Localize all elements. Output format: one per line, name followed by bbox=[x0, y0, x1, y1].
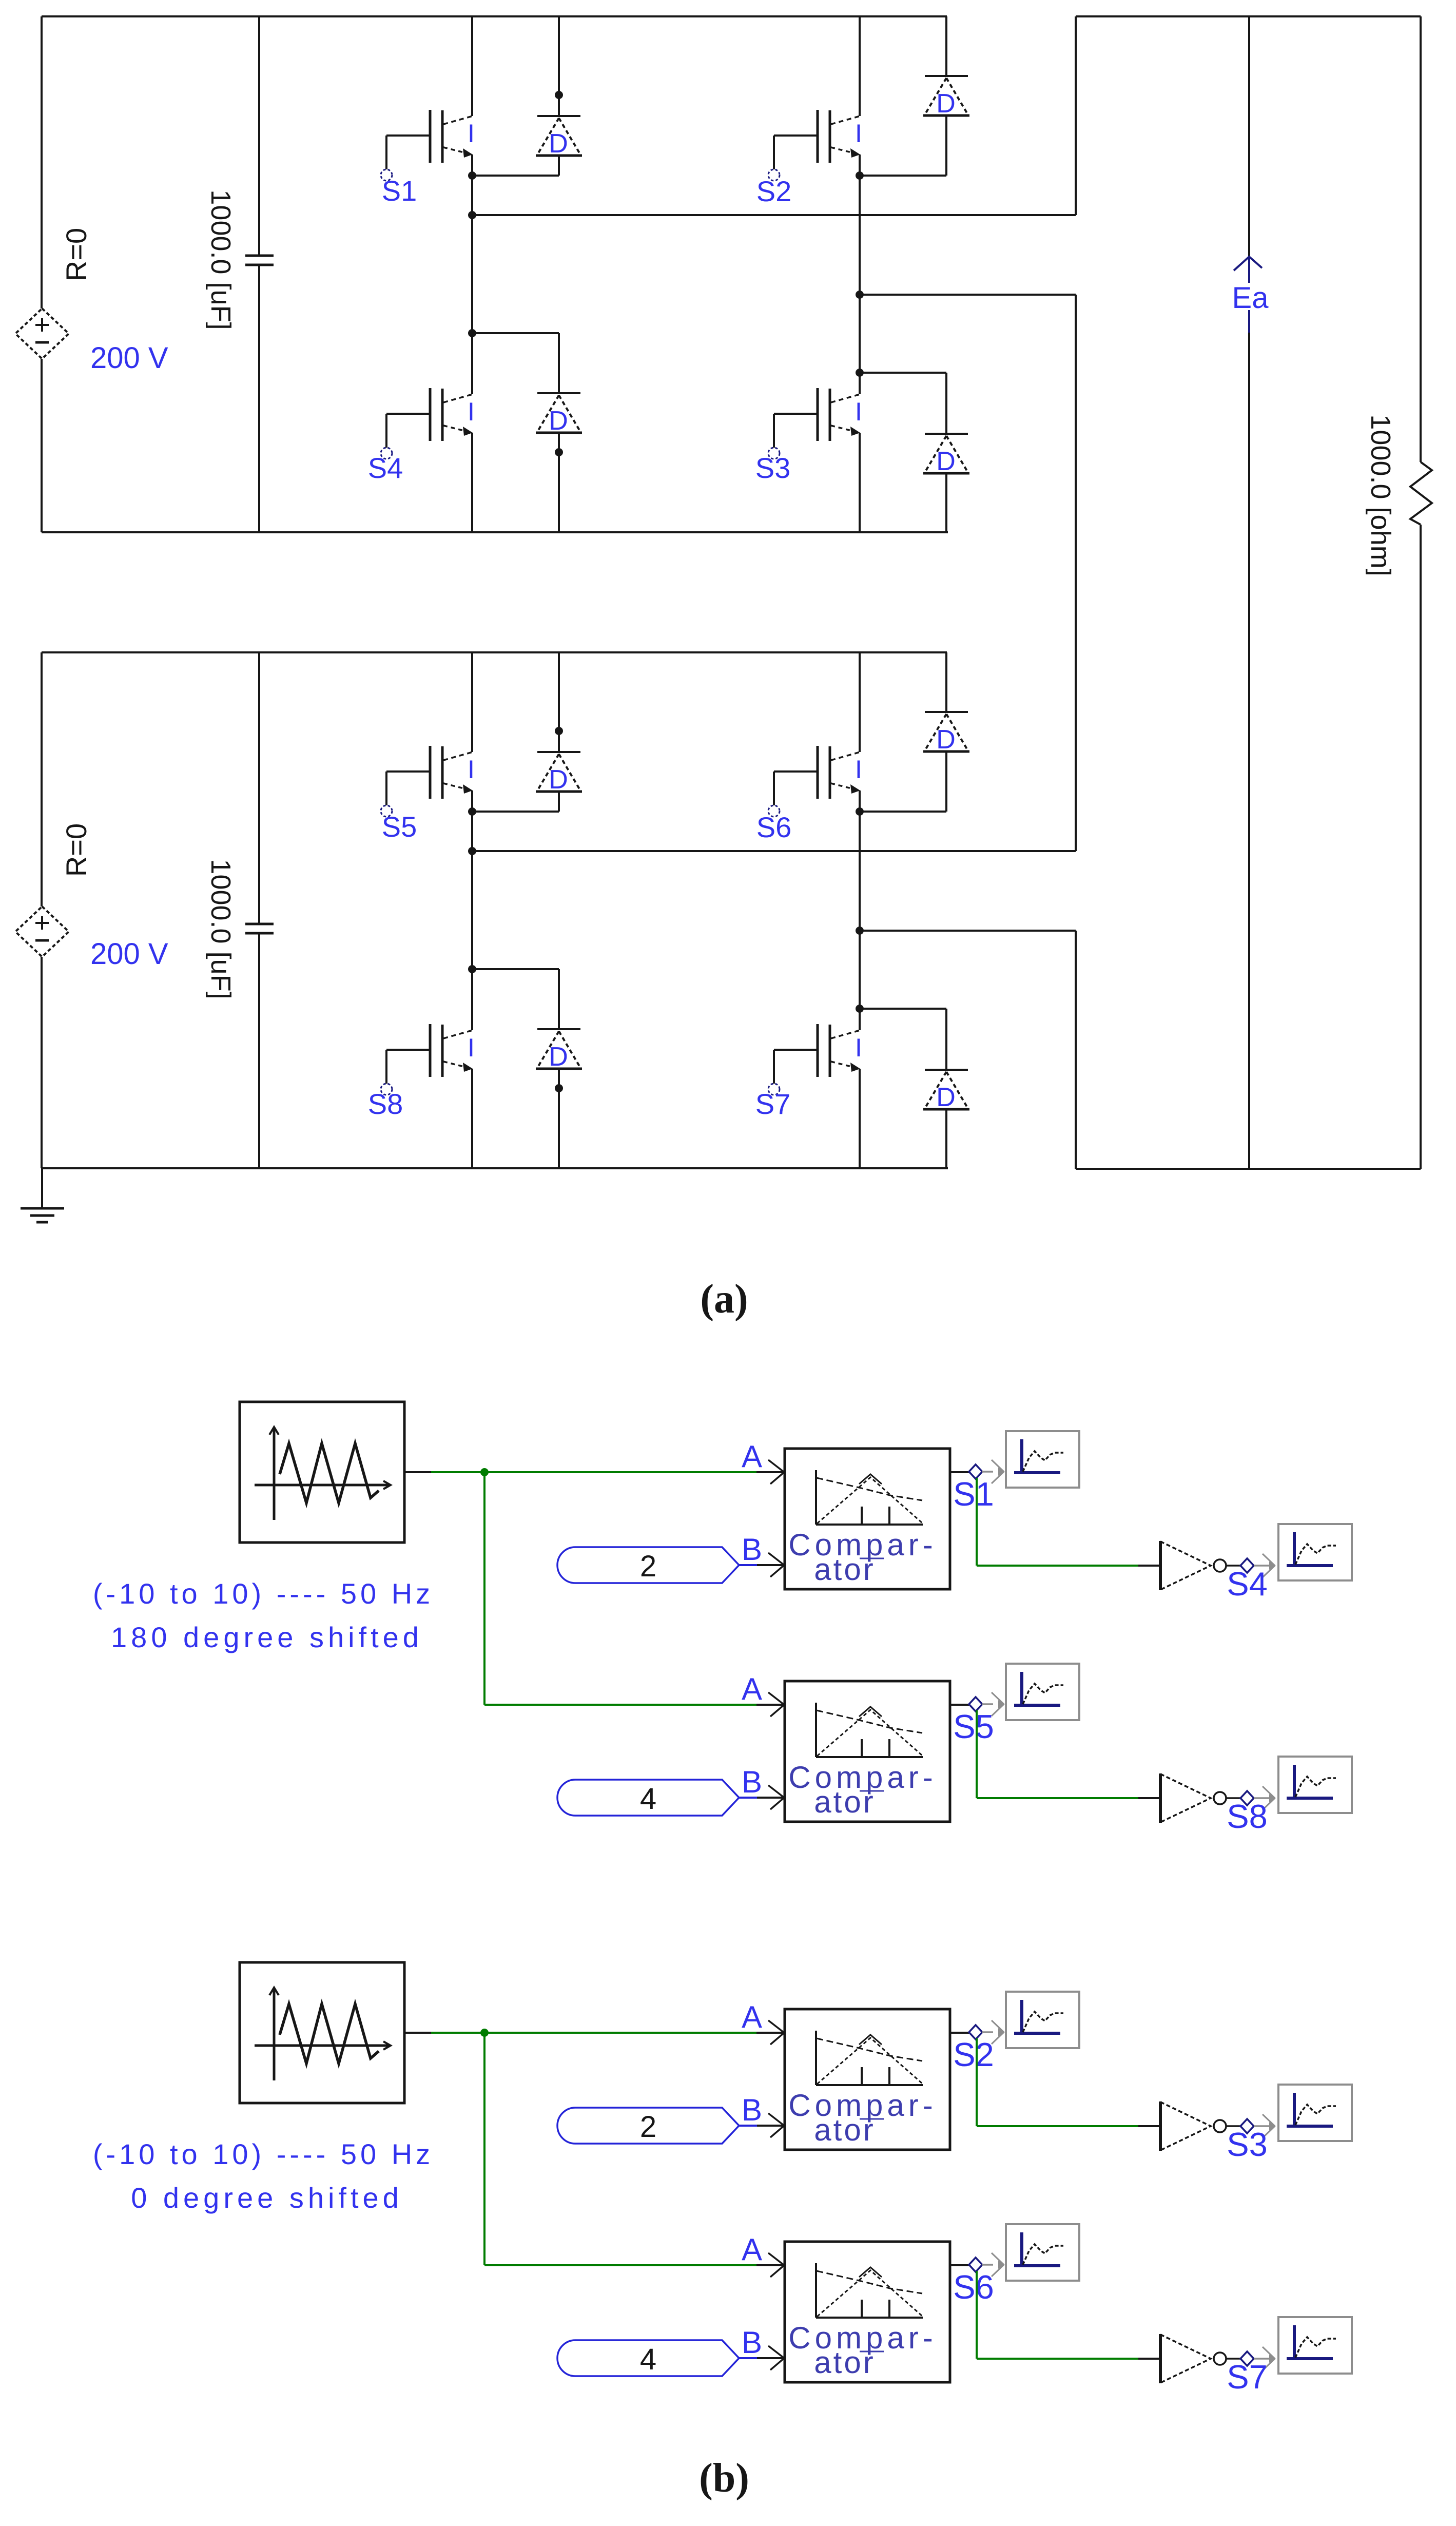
wire output A1 to load top bbox=[472, 214, 1076, 216]
svg-text:S3: S3 bbox=[1227, 2126, 1268, 2163]
wire series link bridge1 B to bridge2 A bbox=[1075, 295, 1077, 851]
svg-text:S3: S3 bbox=[755, 452, 791, 484]
wire load bottom lead bbox=[1420, 525, 1422, 1169]
wire carrier branch down (grp1) bbox=[483, 1472, 486, 1705]
comparator block (output S2) bbox=[742, 2000, 950, 2150]
wire S5 emitter to diode D5 bbox=[472, 811, 559, 813]
svg-text:180 degree shifted: 180 degree shifted bbox=[111, 1621, 423, 1653]
wire left border lower (bridge 2) bbox=[41, 957, 43, 1168]
wire riser output A1 bbox=[1075, 16, 1077, 215]
wire to inverter (S4) bbox=[977, 1565, 1138, 1567]
wire S4 collector tie to diode D4 bbox=[472, 332, 559, 334]
wire carrier branch down (grp2) bbox=[483, 2033, 486, 2265]
node output B1 (right leg midpoint) bbox=[856, 291, 864, 299]
svg-text:200 V: 200 V bbox=[90, 937, 168, 971]
node carrier junction (grp2) bbox=[480, 2029, 489, 2037]
svg-text:R=0: R=0 bbox=[60, 228, 92, 281]
svg-text:S4: S4 bbox=[1227, 1565, 1268, 1603]
wire load top lead bbox=[1420, 16, 1422, 462]
wire S8 emitter to bottom rail bbox=[471, 1069, 473, 1168]
wire Ea sense line lower bbox=[1248, 333, 1250, 1169]
node output A2 (left leg midpoint) bbox=[468, 847, 476, 855]
wire to inverter (S3) bbox=[977, 2125, 1138, 2127]
wire output B1 link bbox=[860, 294, 1076, 296]
svg-text:S8: S8 bbox=[1227, 1798, 1268, 1835]
wire diode D4 bottom lead bbox=[558, 433, 560, 532]
svg-text:S6: S6 bbox=[953, 2268, 994, 2306]
transistor S7 (IGBT) bbox=[768, 1024, 862, 1095]
diode D1 bbox=[536, 116, 582, 159]
node diode D1 top connection bbox=[555, 91, 563, 99]
triangle wave generator (grp1) bbox=[240, 1402, 431, 1542]
scope block (S5) bbox=[1006, 1664, 1079, 1720]
wire S7 collector tie to diode D7 bbox=[860, 1008, 946, 1010]
wire left border lower (bridge 1) bbox=[41, 359, 43, 532]
node S6 emitter junction bbox=[856, 807, 864, 816]
svg-text:S1: S1 bbox=[953, 1475, 994, 1513]
wire comparator output stub (S5) bbox=[950, 1704, 969, 1706]
node diode D8 bottom connection bbox=[555, 1084, 563, 1092]
voltage source E1 200V bbox=[15, 308, 69, 359]
scope block (S4) bbox=[1278, 1524, 1352, 1580]
node output A1 (left leg midpoint) bbox=[468, 211, 476, 219]
diode D7 bbox=[923, 1070, 969, 1112]
transistor S6 (IGBT) bbox=[768, 746, 862, 817]
diode D2 bbox=[923, 76, 969, 119]
wire left leg mid (emitter S5 to collector S8) bbox=[471, 790, 473, 1030]
wire bottom DC rail bridge 2 bbox=[42, 1167, 948, 1169]
voltage source E2 200V bbox=[15, 907, 69, 957]
svg-text:S4: S4 bbox=[368, 452, 403, 484]
svg-text:S6: S6 bbox=[756, 811, 792, 843]
svg-text:S8: S8 bbox=[368, 1088, 403, 1120]
svg-text:(b): (b) bbox=[699, 2456, 749, 2501]
node diode D5 top connection bbox=[555, 727, 563, 735]
wire S2 emitter to diode D2 bbox=[860, 175, 946, 177]
wire S6 collector to top rail bbox=[859, 652, 861, 752]
wire S7 emitter to bottom rail bbox=[859, 1069, 861, 1168]
wire diode D7 bottom lead bbox=[945, 1109, 947, 1168]
wire carrier to comparator2 A (grp1) bbox=[484, 1704, 756, 1706]
transistor S1 (IGBT) bbox=[381, 110, 475, 181]
wire diode D5 top lead bbox=[558, 652, 560, 752]
svg-text:S5: S5 bbox=[953, 1708, 994, 1745]
wire S3 collector tie to diode D3 bbox=[860, 372, 946, 374]
node S3 collector tie bbox=[856, 369, 864, 377]
wire comparator output stub (S6) bbox=[950, 2264, 969, 2266]
wire S1 emitter to diode D1 bbox=[472, 175, 559, 177]
wire S2 collector to top rail bbox=[859, 16, 861, 116]
resistor RL 1000 ohm bbox=[1410, 462, 1432, 525]
node S2 emitter junction bbox=[856, 171, 864, 180]
diode D4 bbox=[536, 393, 582, 436]
wire diode D2 top lead bbox=[945, 16, 947, 76]
wire to scope (S1) bbox=[982, 1471, 993, 1473]
wire to inverter (S7) bbox=[977, 2358, 1138, 2360]
node output connection S5 bbox=[969, 1697, 982, 1711]
comparator block (output S5) bbox=[742, 1672, 950, 1822]
node output connection S1 bbox=[969, 1464, 982, 1479]
wire S2 down (grp2) bbox=[976, 2038, 978, 2126]
svg-text:2: 2 bbox=[640, 1550, 656, 1583]
wire to scope (S2) bbox=[982, 2031, 993, 2033]
svg-text:(-10 to 10) ---- 50 Hz: (-10 to 10) ---- 50 Hz bbox=[93, 2138, 434, 2170]
ground bbox=[21, 1168, 64, 1222]
arrow into scope (S2) bbox=[992, 2020, 1005, 2044]
scope block (S1) bbox=[1006, 1431, 1079, 1488]
wire S4 emitter to bottom rail bbox=[471, 433, 473, 532]
wire output A2 link bbox=[472, 850, 1076, 852]
wire to scope (S5) bbox=[982, 1703, 993, 1705]
wire diode D4 top lead bbox=[558, 333, 560, 393]
triangle wave generator (grp2) bbox=[240, 1962, 431, 2103]
node carrier junction (grp1) bbox=[480, 1468, 489, 1476]
svg-text:S1: S1 bbox=[382, 175, 417, 207]
wire dropper output B2 bbox=[1075, 931, 1077, 1169]
wire top DC rail bridge 2 bbox=[42, 651, 947, 653]
wire S3 emitter to bottom rail bbox=[859, 433, 861, 532]
wire S8 collector tie to diode D8 bbox=[472, 968, 559, 970]
wire S6 down (grp2) bbox=[976, 2271, 978, 2359]
inverter NOT gate (output S4) bbox=[1138, 1541, 1276, 1590]
wire Ea sense line below label bbox=[1248, 310, 1250, 333]
wire capacitor bottom lead (bridge 2) bbox=[258, 933, 260, 1168]
wire left border upper (bridge 1) bbox=[41, 16, 43, 308]
inverter NOT gate (output S8) bbox=[1138, 1773, 1276, 1823]
capacitor C2 1000uF bbox=[245, 923, 274, 925]
node S7 collector tie bbox=[856, 1005, 864, 1013]
svg-text:1000.0 [uF]: 1000.0 [uF] bbox=[205, 189, 236, 330]
wire carrier to comparator2 A (grp2) bbox=[484, 2264, 756, 2266]
wire right leg mid (emitter S2 to collector S3) bbox=[859, 155, 861, 394]
svg-text:S7: S7 bbox=[755, 1088, 791, 1120]
svg-text:S5: S5 bbox=[382, 811, 417, 843]
wire left border upper (bridge 2) bbox=[41, 652, 43, 907]
wire S5 down (grp1) bbox=[976, 1710, 978, 1798]
svg-text:2: 2 bbox=[640, 2110, 656, 2144]
constant 4 (B input, grp1) bbox=[557, 1780, 783, 1816]
svg-text:R=0: R=0 bbox=[60, 823, 92, 877]
wire S1 collector to top rail bbox=[471, 16, 473, 116]
wire bottom return to load bbox=[1076, 1168, 1421, 1170]
wire carrier to comparator A (grp2) bbox=[431, 2032, 756, 2034]
transistor S2 (IGBT) bbox=[768, 110, 862, 181]
svg-text:200 V: 200 V bbox=[90, 341, 168, 375]
scope block (S8) bbox=[1278, 1757, 1352, 1813]
wire output B2 link bbox=[860, 930, 1076, 932]
wire diode D5 bottom lead bbox=[558, 792, 560, 812]
scope block (S6) bbox=[1006, 2224, 1079, 2281]
node output connection S2 bbox=[969, 2025, 982, 2039]
inverter NOT gate (output S3) bbox=[1138, 2101, 1276, 2151]
node S4 collector tie bbox=[468, 329, 476, 337]
svg-text:(a): (a) bbox=[700, 1277, 748, 1322]
svg-text:4: 4 bbox=[640, 1782, 656, 1816]
svg-text:S2: S2 bbox=[953, 2036, 994, 2073]
constant 4 (B input, grp2) bbox=[557, 2340, 783, 2376]
transistor S4 (IGBT) bbox=[381, 388, 475, 459]
wire diode D3 bottom lead bbox=[945, 473, 947, 532]
transistor S3 (IGBT) bbox=[768, 388, 862, 459]
wire diode D2 bottom lead bbox=[945, 115, 947, 176]
wire diode D8 top lead bbox=[558, 969, 560, 1029]
wire right leg mid (emitter S6 to collector S7) bbox=[859, 790, 861, 1030]
wire to scope (S6) bbox=[982, 2264, 993, 2266]
svg-text:4: 4 bbox=[640, 2343, 656, 2376]
wire diode D7 top lead bbox=[945, 1009, 947, 1070]
arrow into scope (S5) bbox=[992, 1692, 1005, 1716]
comparator block (output S6) bbox=[742, 2232, 950, 2382]
wire diode D1 bottom lead bbox=[558, 156, 560, 176]
wire to inverter (S8) bbox=[977, 1797, 1138, 1799]
arrow into scope (S1) bbox=[992, 1460, 1005, 1483]
comparator block (output S1) bbox=[742, 1439, 950, 1589]
wire diode D6 top lead bbox=[945, 652, 947, 712]
wire diode D3 top lead bbox=[945, 373, 947, 434]
capacitor C1 1000uF bbox=[245, 255, 274, 257]
wire Ea sense line upper bbox=[1248, 16, 1250, 256]
wire top DC rail bridge 1 bbox=[42, 15, 947, 17]
diode D6 bbox=[923, 712, 969, 755]
svg-text:Ea: Ea bbox=[1232, 281, 1269, 315]
node output connection S6 bbox=[969, 2258, 982, 2272]
constant 2 (B input, grp2) bbox=[557, 2108, 783, 2144]
diode D5 bbox=[536, 752, 582, 795]
svg-text:1000.0 [uF]: 1000.0 [uF] bbox=[205, 859, 236, 999]
wire comparator output stub (S1) bbox=[950, 1471, 969, 1473]
node diode D4 bottom connection bbox=[555, 448, 563, 456]
wire S5 collector to top rail bbox=[471, 652, 473, 752]
diode D8 bbox=[536, 1029, 582, 1072]
wire left leg mid (emitter S1 to collector S4) bbox=[471, 155, 473, 394]
svg-text:S2: S2 bbox=[756, 175, 792, 207]
wire S6 emitter to diode D6 bbox=[860, 811, 946, 813]
wire S1 down (grp1) bbox=[976, 1478, 978, 1566]
wire comparator output stub (S2) bbox=[950, 2032, 969, 2034]
wire capacitor bottom lead (bridge 1) bbox=[258, 265, 260, 532]
svg-text:1000.0 [ohm]: 1000.0 [ohm] bbox=[1365, 414, 1396, 576]
scope block (S7) bbox=[1278, 2317, 1352, 2374]
transistor S5 (IGBT) bbox=[381, 746, 475, 817]
wire carrier to comparator A (grp1) bbox=[431, 1471, 756, 1473]
svg-text:S7: S7 bbox=[1227, 2358, 1268, 2396]
diode D3 bbox=[923, 434, 969, 476]
wire bottom DC rail bridge 1 bbox=[42, 531, 948, 533]
wire diode D1 top lead bbox=[558, 16, 560, 116]
inverter NOT gate (output S7) bbox=[1138, 2334, 1276, 2383]
constant 2 (B input, grp1) bbox=[557, 1547, 783, 1583]
wire diode D6 bottom lead bbox=[945, 751, 947, 812]
node S8 collector tie bbox=[468, 965, 476, 973]
node S1 emitter junction bbox=[468, 171, 476, 180]
scope block (S2) bbox=[1006, 1992, 1079, 2048]
arrow into scope (S6) bbox=[992, 2253, 1005, 2277]
svg-text:(-10 to 10) ---- 50 Hz: (-10 to 10) ---- 50 Hz bbox=[93, 1577, 434, 1610]
wire top rail to load bbox=[1076, 15, 1421, 17]
wire capacitor top lead (bridge 1) bbox=[258, 16, 260, 256]
svg-text:0 degree shifted: 0 degree shifted bbox=[131, 2182, 403, 2214]
voltmeter arrow Ea bbox=[1234, 257, 1262, 271]
transistor S8 (IGBT) bbox=[381, 1024, 475, 1095]
scope block (S3) bbox=[1278, 2085, 1352, 2141]
wire diode D8 bottom lead bbox=[558, 1069, 560, 1168]
node output B2 (right leg midpoint) bbox=[856, 927, 864, 935]
wire capacitor top lead (bridge 2) bbox=[258, 652, 260, 924]
node S5 emitter junction bbox=[468, 807, 476, 816]
